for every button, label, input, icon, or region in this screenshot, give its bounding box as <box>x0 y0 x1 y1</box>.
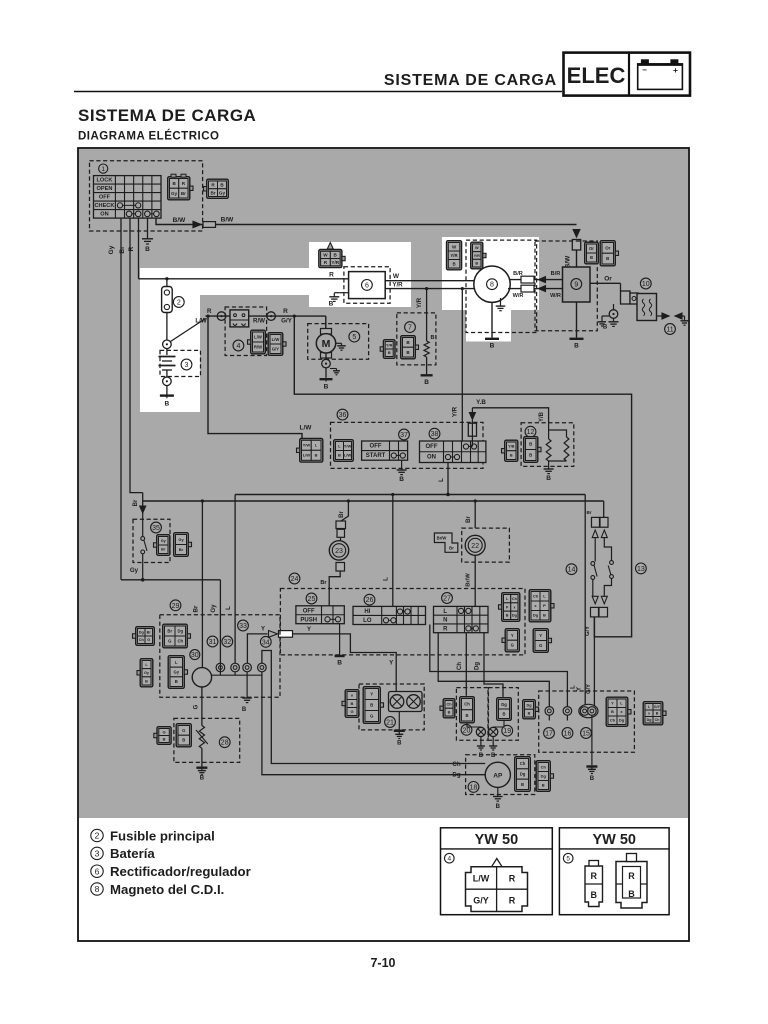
svg-text:17: 17 <box>545 731 553 738</box>
resistor 12 dashed box <box>521 423 574 467</box>
switch 35 connector Gy Br 2 <box>174 533 189 557</box>
svg-text:12: 12 <box>527 429 535 436</box>
wire Br drop to tail <box>603 501 605 517</box>
svg-text:B: B <box>242 707 247 713</box>
wire R starter relay feed <box>206 315 326 317</box>
svg-text:B: B <box>496 804 501 810</box>
svg-text:CHECK: CHECK <box>95 203 115 209</box>
svg-text:Br: Br <box>320 580 327 586</box>
svg-text:Or: Or <box>589 246 594 251</box>
svg-text:Br: Br <box>466 516 472 523</box>
wire L drop to meter lamp <box>234 495 236 664</box>
svg-text:21: 21 <box>386 720 394 727</box>
wire B/R magneto right <box>510 279 563 281</box>
horn 23 <box>340 537 342 541</box>
wire 34 hook to autochoke <box>262 651 485 764</box>
wire junction dots <box>201 499 204 502</box>
wire Gy horizontal <box>121 579 220 581</box>
switch 37 ground <box>401 460 403 469</box>
labels 13 14 <box>566 564 577 575</box>
svg-text:Ch: Ch <box>610 718 616 723</box>
svg-text:B: B <box>388 351 391 355</box>
svg-text:Rectificador/regulador: Rectificador/regulador <box>110 864 251 879</box>
svg-text:B: B <box>337 660 342 667</box>
svg-text:B: B <box>452 261 455 266</box>
svg-text:22: 22 <box>471 543 479 550</box>
svg-text:B: B <box>491 753 496 759</box>
svg-text:W/R: W/R <box>513 293 524 299</box>
svg-text:YW 50: YW 50 <box>475 832 519 848</box>
svg-text:Dg: Dg <box>475 662 481 670</box>
wire G/Y tail to rear lamp <box>593 617 595 707</box>
main switch 1 dashed box <box>90 161 203 231</box>
starter motor ground <box>325 368 327 378</box>
svg-text:B: B <box>397 741 402 747</box>
svg-text:B: B <box>574 343 579 350</box>
svg-text:R: R <box>207 308 212 315</box>
labels 31-34 <box>207 636 218 647</box>
svg-text:N: N <box>443 618 447 624</box>
svg-text:B: B <box>175 679 178 684</box>
battery icon <box>638 64 683 90</box>
svg-text:3: 3 <box>95 848 100 858</box>
svg-text:10: 10 <box>642 281 650 288</box>
svg-text:Br: Br <box>339 511 345 518</box>
svg-text:B: B <box>351 701 354 706</box>
svg-text:Y/R: Y/R <box>416 297 423 308</box>
switch 36 dashed box <box>331 422 484 468</box>
connector Y/B B small <box>505 440 518 461</box>
resistor 28 connector G B small <box>157 727 171 745</box>
meter connector L Gy B <box>140 659 153 687</box>
headlight resistor 28 dashed box <box>174 718 240 762</box>
svg-text:2: 2 <box>95 831 100 841</box>
svg-text:Ch: Ch <box>655 718 660 722</box>
svg-text:HI: HI <box>364 609 370 615</box>
lamp 19 connector <box>497 698 512 721</box>
bullet 33 ground <box>246 672 248 698</box>
switch 37 label <box>399 429 410 440</box>
wire Gy drop to meter <box>219 580 221 664</box>
svg-text:B: B <box>324 384 329 391</box>
svg-text:30: 30 <box>191 652 199 659</box>
svg-text:G: G <box>193 704 199 709</box>
magneto 8 label <box>487 279 498 290</box>
svg-text:Y/R: Y/R <box>386 344 393 348</box>
svg-text:B: B <box>590 255 593 260</box>
svg-text:Y/W: Y/W <box>303 443 311 448</box>
rectifier 6 connector arrow <box>327 243 333 250</box>
svg-text:LOCK: LOCK <box>97 178 113 184</box>
svg-text:31: 31 <box>209 639 217 646</box>
lamp bullet 16 <box>563 707 572 716</box>
svg-text:AP: AP <box>493 772 503 779</box>
svg-text:SISTEMA DE CARGA: SISTEMA DE CARGA <box>384 72 557 89</box>
svg-text:B: B <box>528 711 531 715</box>
regulator 9 dashed box <box>535 241 597 331</box>
magneto 8 dashed box <box>466 240 537 332</box>
svg-text:B: B <box>200 776 205 782</box>
svg-text:W: W <box>393 273 400 280</box>
svg-text:5: 5 <box>352 334 356 341</box>
resistor 28 ground <box>196 767 207 769</box>
svg-text:G/Y: G/Y <box>585 626 591 636</box>
battery 3 label <box>181 359 192 370</box>
svg-text:B: B <box>431 335 435 341</box>
svg-text:B: B <box>510 453 513 457</box>
svg-text:Br: Br <box>192 605 199 612</box>
svg-text:25: 25 <box>308 596 316 603</box>
svg-text:Gy: Gy <box>178 537 184 542</box>
autochoke connector Ch Dg B <box>515 757 531 792</box>
svg-text:37: 37 <box>400 432 408 439</box>
meter 29 dashed box <box>160 615 280 698</box>
svg-text:B: B <box>606 256 609 261</box>
svg-text:ON: ON <box>427 455 436 461</box>
switch 35 connector Gy Br <box>157 535 170 556</box>
svg-text:B/R: B/R <box>551 271 561 277</box>
svg-text:B: B <box>165 401 170 408</box>
svg-text:2: 2 <box>177 300 181 307</box>
svg-text:G/Y: G/Y <box>473 896 489 906</box>
labels 15 16 17 <box>544 728 555 739</box>
legend 2 fuse <box>91 828 215 843</box>
svg-text:G: G <box>147 638 150 642</box>
lamp 19 ground <box>492 737 494 746</box>
svg-text:G: G <box>168 639 171 644</box>
horn 23 wire to horn switch <box>329 571 340 606</box>
switch 35 feed <box>142 493 144 506</box>
svg-text:G: G <box>511 643 514 648</box>
svg-text:L/W: L/W <box>473 874 490 884</box>
resistor 12 ground <box>544 468 554 470</box>
starter relay 4 label <box>233 340 244 351</box>
resistor 7 ground <box>426 357 428 374</box>
svg-text:R: R <box>591 871 598 881</box>
svg-text:B: B <box>329 301 334 308</box>
svg-text:20: 20 <box>463 727 471 734</box>
resistor 7 dashed box <box>397 313 436 365</box>
flasher 22 output wire <box>474 555 476 606</box>
wire 34 drop to autochoke <box>262 672 485 775</box>
svg-text:Gy: Gy <box>219 190 226 195</box>
svg-text:L: L <box>225 606 232 610</box>
magneto 8 connector W Y/R B <box>447 241 462 270</box>
svg-text:B: B <box>590 776 595 782</box>
resistor 12 connector B B <box>524 437 538 463</box>
svg-text:Br: Br <box>179 547 184 552</box>
svg-text:B: B <box>163 736 166 741</box>
wire Br from main switch <box>130 218 143 493</box>
svg-text:5: 5 <box>566 856 570 863</box>
switch 38 label <box>429 428 440 439</box>
svg-text:R: R <box>329 272 334 279</box>
svg-text:7-10: 7-10 <box>370 956 395 970</box>
relay ground bullet <box>598 304 619 326</box>
svg-text:G/Y: G/Y <box>586 684 592 694</box>
flasher lamp 19 dashed box <box>488 688 518 741</box>
svg-text:R: R <box>283 308 288 315</box>
svg-text:Ch: Ch <box>457 662 463 670</box>
connector L/W 4pin A <box>300 439 323 463</box>
svg-text:L: L <box>438 478 445 482</box>
svg-text:+: + <box>673 65 678 75</box>
fuse 2 label <box>173 297 184 308</box>
switch 35 poles <box>142 513 144 536</box>
legend 6 rectifier <box>91 864 251 879</box>
horn switch 25 OFF PUSH <box>296 606 344 624</box>
svg-text:G/Y: G/Y <box>654 705 661 709</box>
svg-text:B: B <box>448 710 451 714</box>
resistor 28 connector G B <box>176 724 191 747</box>
svg-text:W/R: W/R <box>550 293 561 299</box>
starter motor bullet <box>325 353 327 359</box>
lamp 20 connector small <box>443 699 455 718</box>
svg-text:L/W: L/W <box>254 335 262 340</box>
regulator 9 connector Or B 2 <box>600 241 615 266</box>
gray diagram background <box>79 149 688 818</box>
svg-text:8: 8 <box>95 884 100 894</box>
rear lamp dashed box <box>539 691 635 752</box>
YW50 box 5 <box>559 828 669 915</box>
svg-text:R/W: R/W <box>254 345 262 350</box>
horn 23 feed <box>341 501 348 521</box>
svg-text:4: 4 <box>236 343 240 350</box>
wire B/W from main switch <box>156 218 577 224</box>
autochoke connector 2 <box>536 761 550 792</box>
wire Dg to flasher lamp 19 <box>484 633 503 697</box>
connector L/W G/Y <box>268 333 283 356</box>
svg-text:B: B <box>529 453 532 458</box>
wire L drop to dimmer switch <box>392 495 394 607</box>
svg-text:B: B <box>145 679 148 683</box>
regulator 9 label <box>571 279 582 290</box>
svg-text:ELEC: ELEC <box>567 63 626 88</box>
ELEC tab box <box>564 53 691 96</box>
meter light 30 <box>192 668 211 687</box>
regulator 9 ground wire <box>576 302 578 338</box>
svg-text:OFF: OFF <box>426 444 438 450</box>
svg-text:R: R <box>509 896 516 906</box>
lamp bullet 17 <box>545 707 554 716</box>
lamp 20 ground <box>480 737 482 746</box>
wire L/W to handlebar switch <box>208 316 302 438</box>
horn switch ground wire <box>339 624 341 655</box>
meter bullets 31 32 33 34 <box>216 663 225 672</box>
meter light wire <box>212 674 262 676</box>
svg-text:R: R <box>509 874 516 884</box>
headlamp 21 bulbs <box>389 692 423 712</box>
bullet starter wire right <box>267 312 276 321</box>
white highlight region battery column <box>140 268 200 412</box>
rectifier 6 ground <box>329 293 348 302</box>
lamp stubs <box>548 715 550 720</box>
starter motor case ground <box>336 342 342 344</box>
white highlight region R wire band <box>140 268 309 295</box>
svg-text:32: 32 <box>223 639 231 646</box>
svg-text:Or: Or <box>604 275 612 282</box>
svg-text:P: P <box>543 603 546 608</box>
svg-text:Br: Br <box>167 629 172 634</box>
svg-text:Y/R: Y/R <box>474 254 481 258</box>
battery 3 dashed box <box>160 350 201 376</box>
svg-text:B: B <box>370 703 373 708</box>
connector Y G <box>505 629 519 652</box>
labels 19 20 <box>461 724 472 735</box>
svg-text:Fusible principal: Fusible principal <box>110 828 215 843</box>
svg-text:Batería: Batería <box>110 846 155 861</box>
autochoke 18 unit <box>485 762 510 787</box>
svg-text:SISTEMA DE CARGA: SISTEMA DE CARGA <box>78 106 256 125</box>
svg-text:B: B <box>529 442 532 447</box>
wire Y drop right <box>584 495 586 707</box>
svg-text:M: M <box>322 338 331 350</box>
svg-text:OFF: OFF <box>99 195 111 201</box>
magneto bottom ground wire <box>491 302 493 337</box>
autochoke ground <box>497 787 499 796</box>
svg-text:Gy: Gy <box>161 539 167 543</box>
svg-text:1: 1 <box>101 166 105 173</box>
svg-text:Br: Br <box>119 246 126 254</box>
main switch connector B R Gy Br <box>168 177 190 200</box>
YW50 box 4 <box>441 828 553 915</box>
svg-text:Y/R: Y/R <box>451 406 458 417</box>
relay 10 label <box>640 278 651 289</box>
svg-text:Y.B: Y.B <box>476 399 486 406</box>
battery ground <box>166 385 168 394</box>
svg-text:B: B <box>475 262 478 266</box>
svg-text:24: 24 <box>291 576 299 583</box>
svg-text:19: 19 <box>503 728 511 735</box>
svg-text:G: G <box>370 714 374 719</box>
svg-text:23: 23 <box>335 548 343 555</box>
svg-text:14: 14 <box>568 567 576 574</box>
legend 8 magneto <box>91 882 224 897</box>
dimmer switch 26 HI LO <box>353 606 426 624</box>
lamp 19 connector small <box>523 700 536 719</box>
svg-text:Ch: Ch <box>464 702 470 707</box>
wire W/R magneto right <box>508 288 563 290</box>
wire Y horn switch output <box>247 624 396 692</box>
svg-text:Dg: Dg <box>520 772 526 777</box>
rectifier 6 connector W B R Y/R <box>319 250 342 268</box>
svg-text:B: B <box>338 452 341 457</box>
white highlight region rectifier 6 <box>309 242 411 307</box>
svg-text:B: B <box>546 475 551 482</box>
svg-text:B/R: B/R <box>513 271 523 277</box>
svg-text:B: B <box>656 712 659 716</box>
lamp 20 wire <box>467 723 481 728</box>
rectifier 6 box <box>349 272 386 299</box>
svg-text:15: 15 <box>582 731 590 738</box>
switch 37 OFF START <box>362 441 408 460</box>
resistor 7 connector B B <box>401 336 416 359</box>
svg-text:Y/R: Y/R <box>392 281 403 288</box>
svg-text:B: B <box>399 476 404 483</box>
svg-text:34: 34 <box>262 639 270 646</box>
relay 10 coils <box>642 299 651 316</box>
svg-text:Br/W: Br/W <box>437 536 447 541</box>
wire to lamp 17 <box>438 633 549 707</box>
svg-text:L/W: L/W <box>272 337 280 342</box>
connector R B Br Gy <box>207 179 229 198</box>
svg-text:B: B <box>502 711 505 716</box>
tail light connector top <box>592 517 600 527</box>
svg-text:9: 9 <box>574 282 578 289</box>
switch box 24 dashed <box>280 589 525 655</box>
svg-text:B: B <box>543 613 546 618</box>
svg-text:W: W <box>475 246 479 250</box>
wire W rectifier to magneto <box>385 280 474 282</box>
connector Y/R B small <box>383 340 395 359</box>
svg-text:R: R <box>443 626 448 632</box>
switch 35 label <box>151 522 162 533</box>
connector L/W R/W <box>251 330 266 354</box>
svg-text:B: B <box>424 379 429 386</box>
svg-text:OFF: OFF <box>303 608 315 614</box>
svg-text:Y/B: Y/B <box>508 445 515 449</box>
wire Y/R to switch 38 <box>461 289 463 441</box>
meter 29 label <box>170 600 181 611</box>
tail light switch <box>591 538 616 597</box>
connector Ch L P B <box>529 590 551 622</box>
magneto internal ground <box>496 298 506 311</box>
lamp 19 <box>489 727 498 736</box>
magneto 8 circle <box>474 266 510 302</box>
connector Y G 2 <box>533 629 548 653</box>
svg-text:Ch: Ch <box>533 594 539 599</box>
svg-text:3: 3 <box>185 362 189 369</box>
svg-text:Dg: Dg <box>533 613 539 618</box>
svg-text:Y: Y <box>611 701 614 706</box>
svg-text:OFF: OFF <box>370 444 382 450</box>
wire Y/R rectifier to magneto <box>385 288 474 290</box>
turn switch 27 L N R <box>434 606 489 632</box>
svg-text:Dg: Dg <box>512 614 518 618</box>
svg-text:B: B <box>182 738 185 743</box>
headlamp 21 ground <box>398 712 400 730</box>
svg-text:B: B <box>479 753 484 759</box>
wire Y/R drop to resistor 7 <box>426 289 428 341</box>
svg-text:29: 29 <box>172 603 180 610</box>
svg-text:Gy: Gy <box>144 671 150 675</box>
svg-text:B: B <box>628 889 635 899</box>
relay 10 connector <box>621 291 631 304</box>
wire to lamp 16 <box>430 625 568 707</box>
svg-text:B: B <box>315 453 318 458</box>
flasher connector Br/W step <box>434 533 457 552</box>
svg-text:W: W <box>323 253 328 258</box>
svg-text:R: R <box>128 246 135 251</box>
svg-text:G: G <box>539 643 543 648</box>
headlamp 21 dashed box <box>359 684 424 730</box>
svg-text:P: P <box>506 605 509 609</box>
svg-text:Y: Y <box>370 692 373 697</box>
legend 3 battery <box>91 846 156 861</box>
wire B from main switch to ground <box>147 218 149 238</box>
wire B/W arrow into rectifier fuse <box>573 230 580 238</box>
tail light arrows up <box>592 530 598 538</box>
starter relay connector 4pin <box>230 310 249 327</box>
svg-text:26: 26 <box>366 597 374 604</box>
lamp 20 connector <box>460 697 475 723</box>
svg-text:Y: Y <box>261 627 265 633</box>
svg-text:B: B <box>611 709 614 714</box>
svg-text:x: x <box>648 712 650 716</box>
flasher lamp 20 dashed box <box>456 688 488 741</box>
lamp bullet 15 pair <box>579 704 598 717</box>
resistor 12 elements <box>546 423 569 469</box>
